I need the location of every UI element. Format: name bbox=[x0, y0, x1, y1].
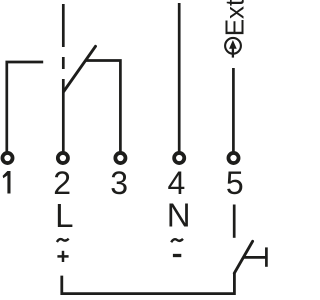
switch S2 blade bbox=[234, 241, 252, 273]
mechanical link (dashed) to switch S1 bbox=[62, 4, 65, 69]
svg-text:Ext: Ext bbox=[220, 0, 250, 36]
AC tilde under N bbox=[171, 239, 183, 242]
switch S1 blade (changeover, closed to right contact) bbox=[64, 46, 96, 91]
external-button arrowhead bbox=[229, 40, 237, 49]
terminal 3 bbox=[115, 153, 125, 163]
terminal 4 bbox=[174, 153, 184, 163]
svg-text:5: 5 bbox=[226, 165, 244, 201]
plus sign under L bbox=[57, 251, 68, 262]
wire right contact of S1 to terminal 3 bbox=[85, 61, 120, 154]
terminal 1 bbox=[2, 153, 12, 163]
external-button symbol circle bbox=[225, 38, 241, 54]
wire terminal 5 down to switch S2 bbox=[233, 205, 236, 238]
svg-text:2: 2 bbox=[53, 165, 71, 201]
wire Ext symbol to terminal 5 bbox=[232, 68, 235, 153]
terminal 5 bbox=[228, 153, 238, 163]
S2 manual actuator bar bbox=[243, 256, 266, 259]
svg-text:L: L bbox=[55, 197, 73, 234]
wire pole of S1 down to terminal 2 bbox=[62, 79, 65, 153]
AC tilde under L bbox=[57, 239, 69, 242]
S2 manual actuator tip bbox=[265, 247, 268, 266]
external-button arrow shaft bbox=[232, 47, 234, 58]
minus sign under N bbox=[173, 254, 181, 257]
svg-text:N: N bbox=[167, 196, 191, 233]
wire bottom run from terminal 2 column to switch S2 bbox=[62, 273, 235, 293]
terminal 2 bbox=[58, 153, 68, 163]
wire left contact of S1 to terminal 1 bbox=[7, 62, 43, 153]
wire terminal 4 bbox=[178, 3, 181, 153]
label terminal 1 bbox=[3, 171, 11, 194]
svg-text:3: 3 bbox=[110, 165, 128, 201]
